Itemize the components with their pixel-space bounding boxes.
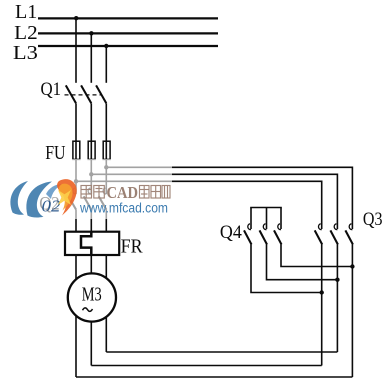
svg-text:FR: FR: [121, 236, 144, 258]
svg-text:L3: L3: [13, 42, 38, 64]
svg-text:M3: M3: [82, 284, 102, 306]
wire Q3 pole 1 down through node A: [321, 245, 323, 366]
contactor Q4 pole 3 upper wire: [280, 208, 282, 230]
wire branch to Q3 from phase B: [91, 174, 337, 229]
wire Q3 pole 3 down through node C: [351, 245, 353, 378]
contactor Q4 pole 1 hook: [248, 224, 251, 230]
contactor Q3 pole 1 blade: [315, 230, 323, 244]
svg-text:L1: L1: [15, 1, 37, 23]
disconnector Q1 pole 2 blade: [81, 85, 91, 103]
svg-text:02: 02: [42, 197, 61, 216]
node C junction right: [350, 264, 354, 268]
wire phase B Q1 to fuse: [90, 103, 92, 194]
power rail L2: [38, 32, 218, 34]
contactor Q4 pole 1 upper wire: [250, 208, 252, 230]
watermark logo flame: [57, 179, 77, 215]
svg-text:CAD: CAD: [107, 183, 139, 202]
wire phase A drop from L1: [75, 18, 77, 83]
contactor Q3 pole 2 blade: [330, 230, 338, 244]
wire Q3 pole 2 down through node B: [336, 245, 338, 353]
svg-text:Q3: Q3: [363, 209, 383, 230]
contactor Q3 pole 2 hook: [334, 224, 337, 230]
wire bottom return phase A: [76, 376, 352, 378]
wire phase C drop from L3: [105, 46, 107, 83]
contactor Q4 pole 3 hook: [278, 224, 281, 230]
svg-text:Q1: Q1: [41, 79, 62, 100]
wire Q4 pole 2 to node B: [267, 245, 338, 280]
node branch B: [89, 172, 93, 176]
power rail L3: [38, 45, 218, 47]
contactor Q2 pole 3 hook: [103, 188, 106, 194]
watermark logo blue swoosh 1: [10, 181, 28, 215]
motor tilde: [83, 308, 93, 312]
contactor Q3 pole 1 hook: [318, 224, 321, 230]
svg-text:L2: L2: [14, 22, 38, 44]
contactor Q2 pole 2 blade: [84, 196, 92, 209]
wire Q4 pole 3 to node C: [281, 245, 352, 267]
contactor Q4 pole 3 blade: [274, 230, 282, 244]
svg-text:Q4: Q4: [220, 222, 242, 243]
wire branch to Q3 from phase C: [106, 167, 352, 229]
fuse FU pole 2: [88, 141, 95, 159]
wire phase A Q2 to FR: [75, 210, 77, 232]
watermark: [0, 159, 172, 219]
disconnector Q1 pole 3 blade: [96, 85, 106, 103]
node branch A: [74, 179, 78, 183]
watermark chinese text: [81, 186, 104, 199]
wire phase B Q2 to FR: [90, 210, 92, 232]
contactor Q4 pole 2 blade: [260, 230, 268, 244]
contactor Q3 pole 3 blade: [345, 230, 353, 244]
motor M3 circle: [68, 273, 116, 321]
node L3 tap: [104, 44, 108, 48]
watermark logo blue swoosh 2: [26, 182, 52, 218]
node L1 tap: [74, 16, 78, 20]
wire phase C Q2 to FR: [105, 210, 107, 232]
thermal relay FR box: [65, 232, 119, 255]
wire bottom return phase B: [91, 365, 321, 367]
contactor Q4 pole 1 blade: [244, 230, 252, 244]
disconnector Q1 linkage dashed line: [65, 94, 103, 96]
wire phase C Q1 to fuse: [105, 103, 107, 194]
power rail L1: [38, 17, 218, 19]
wire phase B drop from L2: [90, 33, 92, 83]
contactor Q4 pole 2 upper wire: [266, 208, 268, 230]
wire bottom return phase C: [106, 351, 337, 353]
contactor Q2 pole 2 hook: [88, 188, 91, 194]
contactor Q4 star bridge bar: [250, 207, 282, 209]
node branch C: [104, 165, 108, 169]
watermark logo swoosh 3: [46, 184, 62, 199]
wire phase B FR to motor: [90, 255, 92, 366]
wire Q4 pole 1 to node A: [251, 245, 322, 293]
contactor Q2 pole 3 blade: [99, 196, 107, 209]
wire phase A FR to motor and bottom: [75, 255, 77, 377]
node L2 tap: [89, 31, 93, 35]
watermark logo sparkle: [58, 190, 71, 205]
wire branch to Q3 from phase A: [76, 181, 322, 229]
thermal relay FR heater jog: [81, 232, 91, 255]
contactor Q2 pole 1 hook: [73, 188, 76, 194]
contactor Q4 pole 2 hook: [263, 224, 266, 230]
wire phase C FR to motor: [105, 255, 107, 352]
contactor Q3 pole 3 hook: [349, 224, 352, 230]
wire phase A Q1 to fuse: [75, 103, 77, 194]
node A junction right: [320, 290, 324, 294]
fuse FU pole 3: [103, 141, 110, 159]
contactor Q2 pole 1 blade: [68, 196, 76, 209]
svg-text:www.mfcad.com: www.mfcad.com: [79, 201, 168, 216]
disconnector Q1 pole 1 blade: [66, 85, 76, 103]
node B junction right: [335, 278, 339, 282]
fuse FU pole 1: [73, 141, 80, 159]
